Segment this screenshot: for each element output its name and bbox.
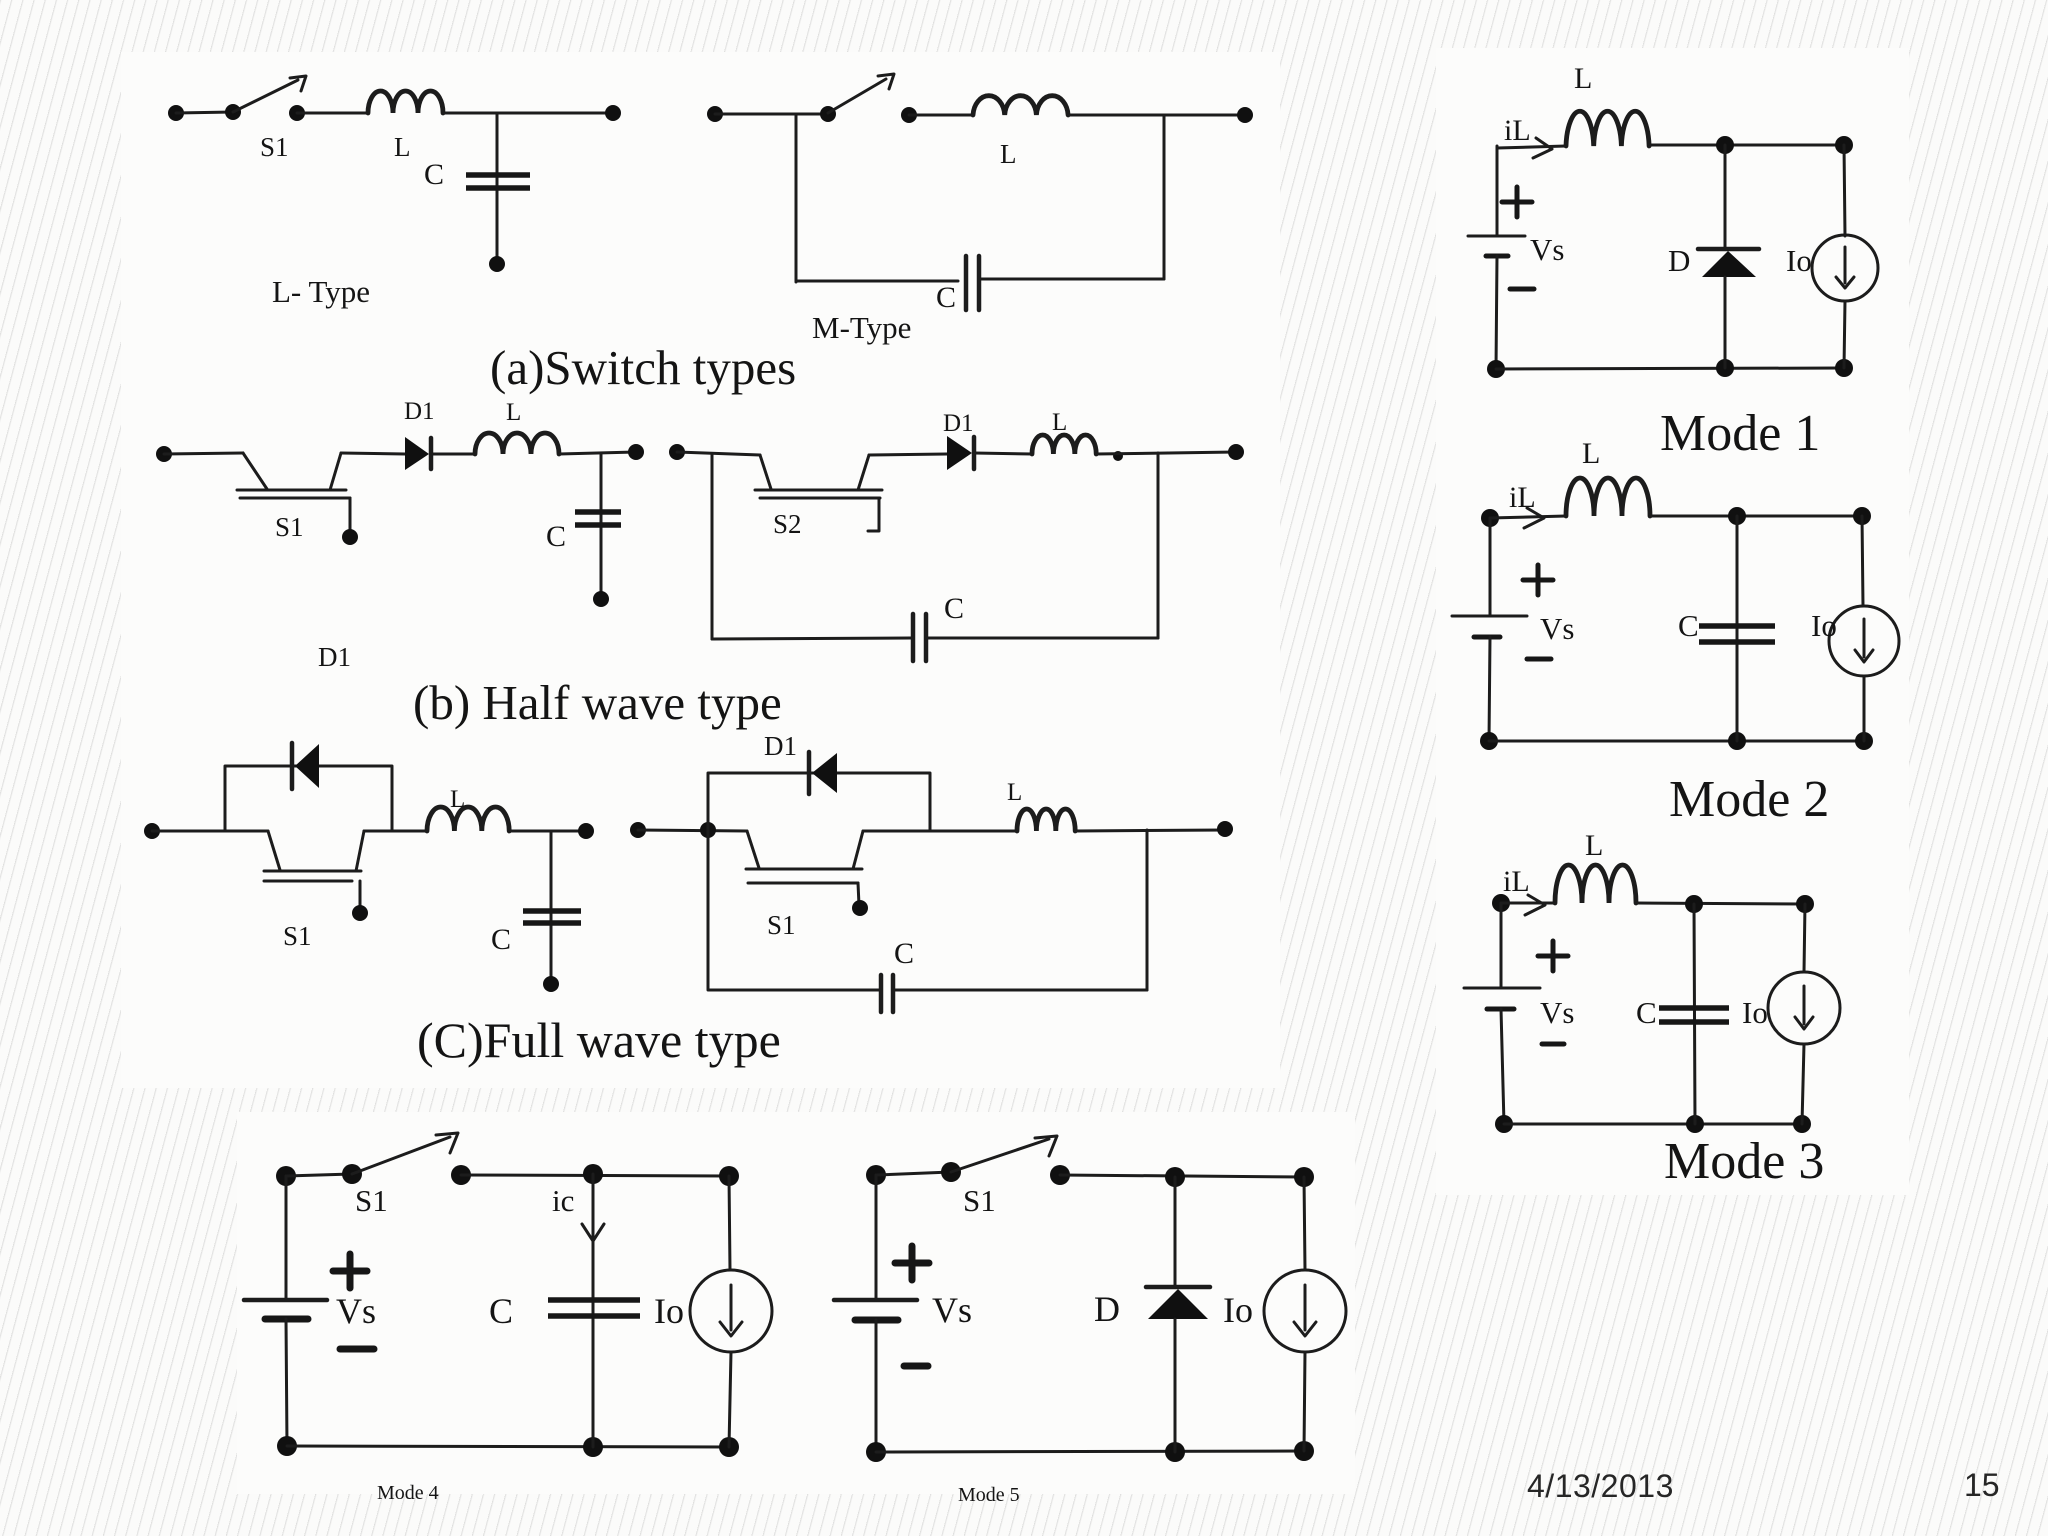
- svg-text:Mode 2: Mode 2: [1669, 771, 1829, 828]
- node: bottom left corner: [1487, 360, 1505, 378]
- label +: [895, 1246, 929, 1280]
- wire: inductor to right terminal: [1075, 830, 1225, 831]
- svg-text:Io: Io: [1811, 608, 1837, 643]
- node: top-left corner: [1492, 894, 1510, 912]
- node: bottom right corner: [719, 1437, 739, 1457]
- wire: bottom run: [287, 1446, 729, 1447]
- svg-text:Io: Io: [1786, 243, 1812, 278]
- label minus: [1527, 657, 1551, 662]
- svg-text:L: L: [506, 399, 521, 426]
- wire: inductor to right terminal: [1068, 114, 1245, 117]
- node: small junction after inductor: [1113, 451, 1123, 461]
- diode D (freewheel, pointing up): [1698, 249, 1759, 277]
- wire: top-left corner to inductor: [1497, 146, 1566, 148]
- svg-text:C: C: [491, 923, 511, 956]
- wire: right shunt vertical: [1157, 453, 1160, 638]
- wire: bottom run: [1504, 1123, 1802, 1126]
- svg-text:C: C: [424, 158, 444, 191]
- wire: diode branch lower: [1174, 1319, 1177, 1452]
- svg-text:Io: Io: [654, 1291, 684, 1331]
- wire: tee down to capacitor: [550, 831, 553, 982]
- node: right terminal: [578, 823, 594, 839]
- wire: inductor to top right: [1649, 144, 1844, 147]
- node: switch pole: [342, 1164, 362, 1184]
- node: diode bottom junction: [1716, 359, 1734, 377]
- svg-text:Mode 5: Mode 5: [958, 1484, 1020, 1506]
- wire: right shunt vertical: [1146, 830, 1149, 990]
- svg-text:D1: D1: [764, 731, 797, 761]
- wire: left lead: [164, 453, 243, 454]
- diode D1 (anti-parallel, pointing left): [292, 743, 319, 789]
- node: L-Type left terminal: [168, 105, 184, 121]
- node: bottom left corner: [1480, 732, 1498, 750]
- svg-text:Mode 3: Mode 3: [1664, 1133, 1824, 1190]
- label minus: [1542, 1042, 1564, 1047]
- inductor L (L-Type): [368, 91, 443, 113]
- svg-text:Mode 1: Mode 1: [1660, 405, 1820, 462]
- node: left terminal: [630, 822, 646, 838]
- diode D1 (anti-parallel, pointing left): [809, 752, 837, 794]
- svg-text:L: L: [1582, 437, 1600, 470]
- wire: diode to inductor: [431, 453, 475, 456]
- node: capacitor top junction: [583, 1164, 603, 1184]
- svg-text:C: C: [546, 520, 566, 553]
- node: bottom right corner: [1294, 1441, 1314, 1461]
- node: M-Type right terminal: [1237, 107, 1253, 123]
- svg-text:C: C: [1678, 608, 1699, 643]
- svg-text:15: 15: [1964, 1467, 2000, 1503]
- svg-text:C: C: [1636, 995, 1657, 1030]
- node: bottom right corner: [1793, 1115, 1811, 1133]
- capacitor C (Mode 2): [1699, 626, 1775, 642]
- battery Vs (Mode 4): [244, 1300, 327, 1319]
- inductor L (half wave left): [475, 433, 559, 454]
- node: top left corner: [276, 1166, 296, 1186]
- wire: capacitor branch upper: [1694, 904, 1695, 1124]
- node: diode top junction: [1165, 1167, 1185, 1187]
- svg-text:L- Type: L- Type: [272, 274, 370, 309]
- white scan panel: main (switch/half/full wave figures): [121, 52, 1280, 1088]
- svg-text:S1: S1: [963, 1183, 996, 1218]
- svg-text:L: L: [1000, 139, 1017, 169]
- svg-text:C: C: [936, 281, 956, 314]
- wire: left lead: [152, 830, 268, 833]
- wire: inductor to top right: [1636, 903, 1805, 904]
- arrow iL: [1524, 508, 1544, 528]
- svg-text:iL: iL: [1504, 114, 1531, 147]
- node: top right corner: [719, 1166, 739, 1186]
- node: switch pole: [941, 1162, 961, 1182]
- wire: L-Type left lead: [176, 112, 233, 113]
- node: bottom right corner: [1835, 359, 1853, 377]
- wire: bottom right run: [979, 278, 1164, 281]
- current source Io (Mode 3): [1768, 904, 1840, 1124]
- wire: corner to switch: [876, 1172, 951, 1175]
- svg-text:D1: D1: [404, 398, 435, 425]
- svg-text:ic: ic: [552, 1183, 574, 1218]
- svg-text:L: L: [1574, 62, 1592, 95]
- svg-text:(C)Full wave type: (C)Full wave type: [417, 1012, 781, 1068]
- battery Vs (Mode 2): [1452, 616, 1527, 637]
- svg-text:S1: S1: [275, 512, 304, 542]
- wire: corner to inductor: [1501, 902, 1555, 905]
- transistor S1 (IGBT): [264, 831, 364, 910]
- svg-text:Mode 4: Mode 4: [377, 1482, 439, 1504]
- node: top-left corner: [1481, 509, 1499, 527]
- label minus: [1510, 287, 1534, 292]
- capacitor C (series in bottom wire): [881, 975, 893, 1012]
- wire: left vertical upper: [285, 1176, 288, 1300]
- node: bottom left corner: [277, 1436, 297, 1456]
- node: diode top junction: [1716, 136, 1734, 154]
- wire: anti-parallel diode loop: [225, 766, 392, 831]
- wire: bottom run: [876, 1451, 1304, 1452]
- wire: inductor to right terminal: [1096, 452, 1236, 454]
- svg-text:L: L: [450, 786, 465, 813]
- node: switch throw: [1050, 1165, 1070, 1185]
- wire: diode to inductor: [974, 453, 1032, 454]
- svg-text:D1: D1: [943, 410, 974, 437]
- wire: left lead: [715, 113, 828, 116]
- wire: left vertical upper: [1496, 146, 1499, 236]
- wire: bottom right run: [926, 637, 1158, 640]
- node: S1 gate dot: [352, 905, 368, 921]
- battery Vs (Mode 5): [834, 1300, 917, 1320]
- capacitor C (series in bottom wire): [913, 614, 926, 661]
- arrow iL: [1525, 895, 1545, 915]
- node: capacitor bottom junction: [1728, 732, 1746, 750]
- wire: left lead: [638, 830, 747, 831]
- node: top left corner: [866, 1165, 886, 1185]
- switch S1 (open blade with arrow): [352, 1133, 458, 1174]
- wire: diode branch lower: [1724, 277, 1727, 368]
- transistor S1 (IGBT): [746, 831, 863, 905]
- capacitor C (L-Type): [466, 175, 530, 188]
- node: diode bottom junction: [1165, 1442, 1185, 1462]
- svg-text:Vs: Vs: [1540, 995, 1574, 1030]
- svg-text:4/13/2013: 4/13/2013: [1527, 1468, 1674, 1504]
- wire: switch to inductor: [297, 112, 368, 115]
- wire: tee down to capacitor: [600, 454, 603, 597]
- svg-text:M-Type: M-Type: [812, 310, 911, 345]
- white scan panel: bottom (Mode 4-5): [237, 1112, 1355, 1494]
- wire: bottom left run: [712, 638, 911, 639]
- wire: top run: [461, 1175, 729, 1176]
- battery Vs (Mode 1): [1468, 236, 1525, 256]
- wire: left vertical upper: [1500, 903, 1503, 988]
- wire: S1 to inductor: [863, 830, 1017, 833]
- node: S1 gate dot: [852, 900, 868, 916]
- wire: left vertical lower: [1501, 1009, 1504, 1124]
- node: bottom left corner: [866, 1442, 886, 1462]
- svg-text:C: C: [894, 937, 914, 970]
- wire: left shunt vertical: [795, 114, 798, 282]
- node: top right corner: [1294, 1167, 1314, 1187]
- diode D1 (series): [405, 437, 431, 470]
- svg-text:Io: Io: [1742, 995, 1768, 1030]
- transistor S1 (IGBT): [237, 453, 350, 534]
- switch S1 (open blade with arrow): [951, 1136, 1057, 1172]
- wire: left vertical lower: [1496, 256, 1497, 369]
- switch S1 (open blade with arrow): [233, 76, 306, 112]
- node: top right corner: [1796, 895, 1814, 913]
- inductor L (Mode 3): [1555, 865, 1636, 903]
- node: S1 gate dot: [342, 529, 358, 545]
- label +: [333, 1254, 367, 1288]
- inductor L (half wave right): [1032, 435, 1096, 454]
- label minus: [340, 1346, 374, 1353]
- svg-text:(b) Half wave type: (b) Half wave type: [413, 675, 782, 730]
- current source Io (Mode 2): [1829, 516, 1899, 741]
- svg-text:Vs: Vs: [932, 1290, 972, 1330]
- wire: diode branch upper: [1724, 145, 1727, 249]
- svg-text:C: C: [944, 592, 964, 625]
- arrow ic (down along capacitor wire): [582, 1204, 604, 1241]
- svg-text:L: L: [1052, 409, 1067, 436]
- svg-text:C: C: [489, 1291, 513, 1331]
- battery Vs (Mode 3): [1464, 988, 1540, 1009]
- wire: left vertical lower: [875, 1320, 878, 1452]
- node: L-Type right terminal: [605, 105, 621, 121]
- label minus: [904, 1363, 928, 1370]
- node: L-Type switch pole: [225, 104, 241, 120]
- wire: diode branch upper: [1174, 1177, 1177, 1287]
- node: L-Type bottom terminal: [489, 256, 505, 272]
- inductor L (full wave right): [1017, 809, 1075, 831]
- node: top right corner: [1835, 136, 1853, 154]
- capacitor C (half wave left): [575, 512, 621, 525]
- current source Io (Mode 1): [1812, 145, 1878, 368]
- diode D (freewheel, pointing up): [1146, 1287, 1210, 1319]
- wire: left shunt vertical: [711, 454, 714, 639]
- wire: anti-parallel diode loop: [708, 773, 930, 830]
- wire: inductor to top right: [1650, 515, 1862, 518]
- wire: left vertical lower: [286, 1319, 287, 1446]
- wire: left vertical lower: [1489, 637, 1490, 741]
- node: left terminal: [144, 823, 160, 839]
- label +: [1538, 941, 1568, 971]
- wire: left lead: [677, 452, 760, 455]
- svg-text:Vs: Vs: [1530, 232, 1564, 267]
- node: right terminal: [628, 444, 644, 460]
- wire: switch to inductor: [909, 114, 973, 117]
- wire: inductor to right terminal: [559, 452, 636, 454]
- wire: capacitor branch upper: [592, 1174, 595, 1447]
- wire: S2 to diode: [869, 454, 947, 455]
- svg-text:S1: S1: [260, 132, 289, 162]
- svg-text:Vs: Vs: [1540, 611, 1574, 646]
- node: bottom terminal: [593, 591, 609, 607]
- capacitor C (full wave left): [523, 911, 581, 923]
- svg-text:iL: iL: [1503, 865, 1530, 898]
- arrow iL: [1533, 138, 1552, 158]
- svg-text:Vs: Vs: [336, 1291, 376, 1331]
- wire: S1 to inductor: [364, 830, 427, 833]
- switch (open blade with arrow): [828, 74, 894, 113]
- node: M-Type switch pole: [820, 106, 836, 122]
- capacitor C (Mode 3): [1659, 1008, 1729, 1022]
- svg-text:D: D: [1094, 1289, 1120, 1329]
- label +: [1523, 565, 1553, 595]
- wire: bottom left vertical and run: [708, 830, 879, 990]
- inductor L (full wave left): [427, 807, 509, 831]
- node: M-Type switch throw: [901, 107, 917, 123]
- inductor L (Mode 2): [1566, 478, 1650, 516]
- wire: bottom left run: [796, 280, 958, 283]
- current source Io (Mode 4): [690, 1176, 772, 1447]
- white scan panel: right (Mode 1-3): [1436, 48, 1909, 1195]
- node: right terminal: [1228, 444, 1244, 460]
- node: capacitor bottom junction: [1686, 1115, 1704, 1133]
- node: M-Type left terminal: [707, 106, 723, 122]
- inductor L (Mode 1): [1566, 111, 1649, 146]
- svg-text:S1: S1: [283, 921, 312, 951]
- svg-text:D1: D1: [318, 642, 351, 672]
- wire: corner to inductor: [1490, 516, 1566, 518]
- node: left terminal: [156, 446, 172, 462]
- node: capacitor top junction: [1728, 507, 1746, 525]
- node: switch throw: [451, 1165, 471, 1185]
- svg-text:S2: S2: [773, 509, 802, 539]
- svg-text:Io: Io: [1223, 1290, 1253, 1330]
- node: capacitor top junction: [1685, 895, 1703, 913]
- node: loop junction: [700, 822, 716, 838]
- diode D1 (series): [947, 436, 974, 470]
- wire: tee down to capacitor: [496, 113, 499, 264]
- inductor L (M-Type): [973, 96, 1068, 115]
- node: left terminal: [669, 444, 685, 460]
- wire: corner to switch: [286, 1174, 352, 1176]
- wire: left vertical upper: [875, 1175, 878, 1300]
- node: bottom right corner: [1855, 732, 1873, 750]
- wire: inductor to right terminal: [443, 112, 613, 115]
- wire: left vertical upper: [1489, 518, 1492, 616]
- wire: right shunt vertical: [1163, 115, 1166, 279]
- capacitor C (Mode 4): [548, 1300, 640, 1316]
- transistor S2 (IGBT): [755, 455, 882, 531]
- wire: top run: [1060, 1175, 1304, 1177]
- wire: bottom right run: [893, 989, 1147, 992]
- wire: S1 to diode: [341, 453, 405, 454]
- svg-text:L: L: [1585, 829, 1603, 862]
- svg-text:(a)Switch types: (a)Switch types: [490, 340, 796, 395]
- svg-text:D: D: [1668, 243, 1690, 278]
- wire: bottom run: [1496, 368, 1844, 369]
- svg-text:S1: S1: [767, 910, 796, 940]
- svg-text:S1: S1: [355, 1183, 388, 1218]
- node: top right corner: [1853, 507, 1871, 525]
- node: bottom terminal: [543, 976, 559, 992]
- node: capacitor bottom junction: [583, 1437, 603, 1457]
- wire: inductor to right terminal: [509, 830, 586, 833]
- node: bottom left corner: [1495, 1115, 1513, 1133]
- wire: capacitor branch upper: [1736, 516, 1739, 741]
- node: right terminal: [1217, 821, 1233, 837]
- svg-text:L: L: [394, 132, 411, 162]
- current source Io (Mode 5): [1264, 1177, 1346, 1451]
- wire: bottom run: [1489, 740, 1864, 743]
- node: L-Type switch throw: [289, 105, 305, 121]
- svg-text:L: L: [1007, 779, 1022, 806]
- label +: [1502, 187, 1532, 217]
- capacitor C (M-Type, series in bottom wire): [966, 256, 979, 310]
